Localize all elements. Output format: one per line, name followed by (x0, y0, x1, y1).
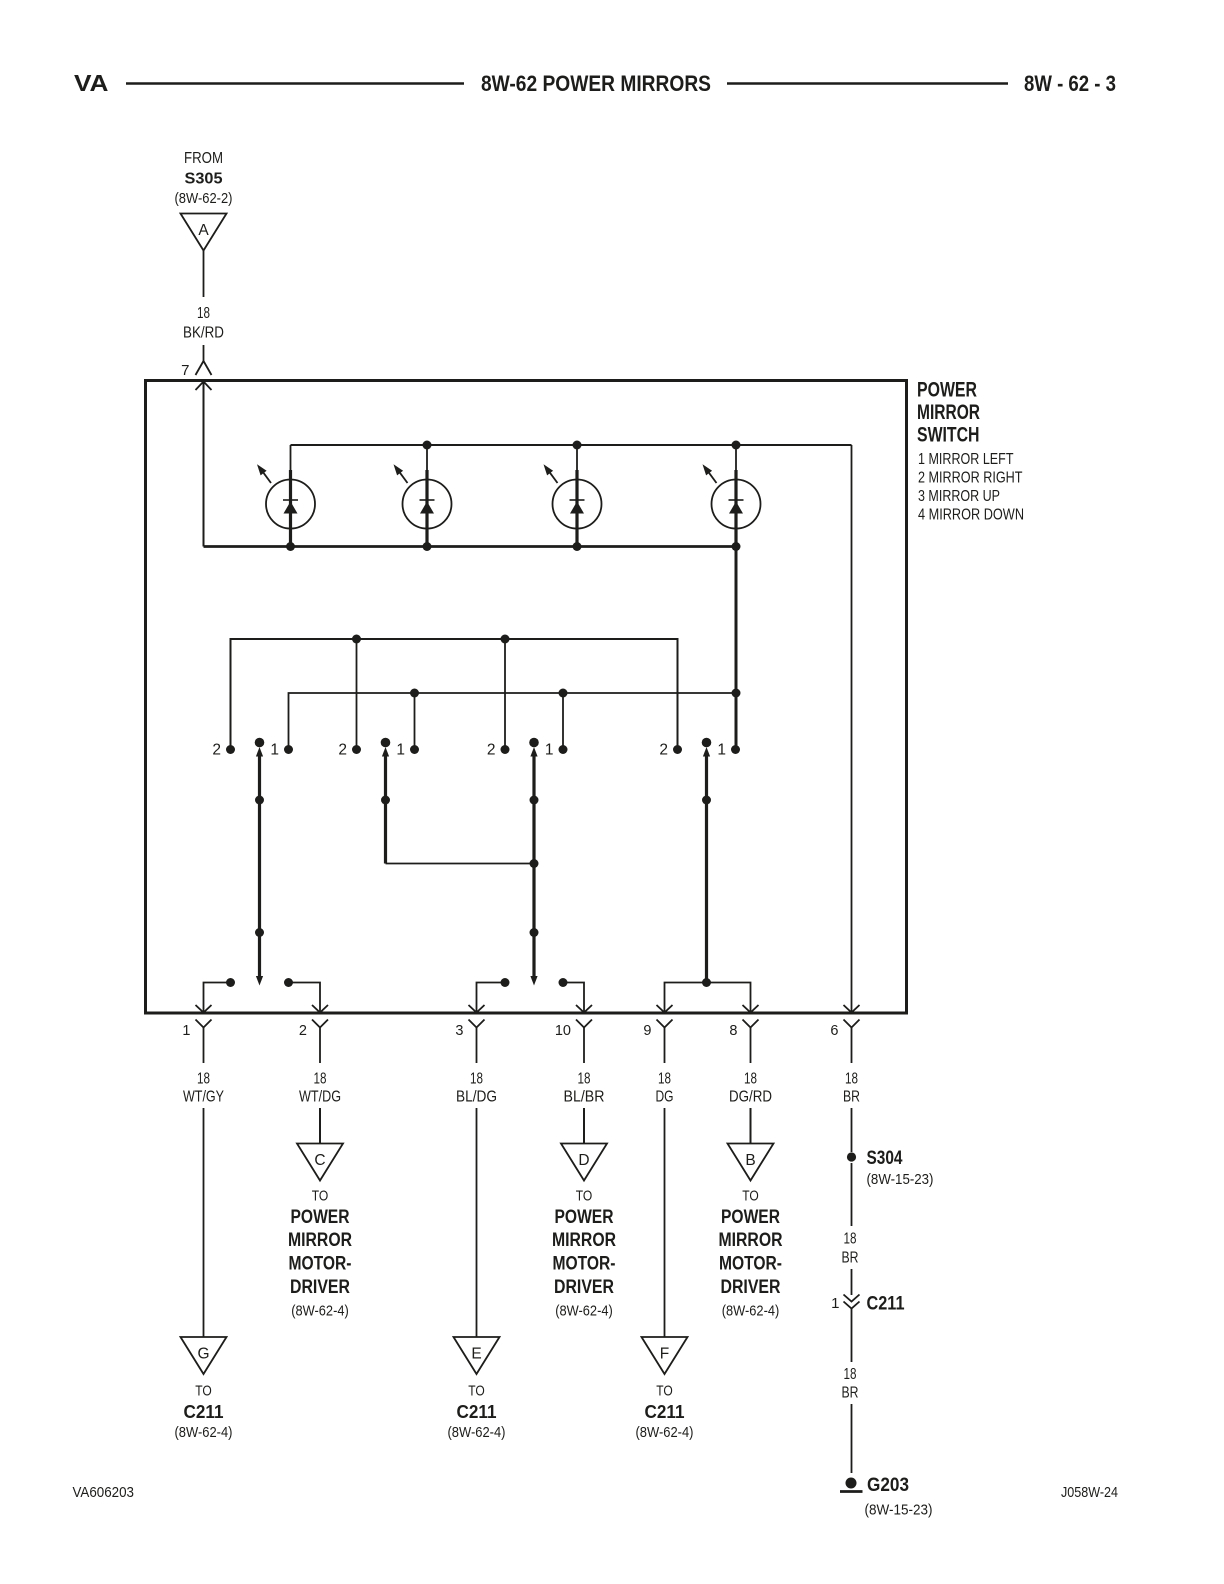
svg-text:8W - 62 - 3: 8W - 62 - 3 (1024, 71, 1116, 96)
pin number 9 (643, 1023, 651, 1039)
svg-text:7: 7 (181, 362, 189, 379)
svg-text:1: 1 (831, 1295, 839, 1312)
svg-text:DRIVER: DRIVER (290, 1277, 350, 1298)
off-page connector D (triangle) (561, 1144, 607, 1181)
power mirror switch body (box) (146, 381, 907, 1014)
svg-text:MIRROR: MIRROR (288, 1230, 352, 1251)
svg-text:TO: TO (468, 1384, 485, 1400)
splice S304 (847, 1152, 856, 1161)
destination label TO POWER MIRROR MOTOR-DRIVER (8W-62-4) (288, 1189, 352, 1320)
pin 10 exit arrowhead at box edge (576, 1005, 592, 1013)
svg-text:SWITCH: SWITCH (917, 424, 980, 447)
svg-text:2 MIRROR RIGHT: 2 MIRROR RIGHT (918, 470, 1023, 487)
wire to pin 6 (vertical) (851, 445, 853, 1013)
svg-text:DG: DG (656, 1089, 674, 1106)
svg-text:(8W-62-4): (8W-62-4) (636, 1424, 694, 1441)
wire from pin 8 (750, 1028, 752, 1064)
wire bottom bus of switch wafers (204, 545, 737, 548)
wire stub contact 2 of wafer 3 (504, 639, 506, 750)
wire to ground G203 (851, 1404, 853, 1473)
wire from pin 1 (203, 1028, 205, 1064)
pin number 1 at C211 (831, 1295, 839, 1312)
svg-text:(8W-62-2): (8W-62-2) (175, 190, 233, 207)
svg-text:BK/RD: BK/RD (183, 325, 224, 342)
wire to off-page connector C (319, 1108, 321, 1144)
svg-text:1: 1 (182, 1023, 190, 1039)
wire pin 7 feed down to switch common bus (203, 382, 205, 547)
svg-text:TO: TO (576, 1189, 593, 1205)
node S305 label FROM S305 (8W-62-2) (175, 150, 233, 207)
svg-text:F: F (660, 1346, 669, 1363)
svg-text:BL/BR: BL/BR (564, 1089, 605, 1106)
svg-text:2: 2 (659, 742, 668, 759)
wire C211 down (851, 1309, 853, 1363)
switch pole 2 fixed contacts and labels 2 / 1 (338, 738, 419, 759)
svg-text:3 MIRROR UP: 3 MIRROR UP (918, 488, 1000, 505)
svg-text:DG/RD: DG/RD (729, 1089, 772, 1106)
pole 1 output contacts to pins 1 and 2 (204, 978, 321, 1013)
pin number 1 (182, 1023, 190, 1039)
svg-text:8W-62 POWER MIRRORS: 8W-62 POWER MIRRORS (481, 71, 711, 96)
off-page connector B (triangle) (728, 1144, 774, 1181)
svg-text:8: 8 (729, 1023, 737, 1039)
wire top bus of switch wafers (291, 444, 852, 446)
destination label TO C211 (8W-62-4) (175, 1384, 233, 1442)
svg-text:(8W-62-4): (8W-62-4) (175, 1424, 233, 1441)
svg-text:J058W-24: J058W-24 (1061, 1484, 1118, 1501)
svg-text:S304: S304 (867, 1148, 903, 1169)
svg-text:18: 18 (845, 1071, 858, 1088)
svg-text:10: 10 (555, 1023, 571, 1039)
pin 10 connector socket below box (576, 1020, 592, 1028)
destination label TO POWER MIRROR MOTOR-DRIVER (8W-62-4) (719, 1189, 783, 1320)
svg-text:(8W-62-4): (8W-62-4) (291, 1303, 349, 1320)
off-page connector F (triangle) (642, 1337, 688, 1374)
junction dots on contacts-1 rail (410, 689, 741, 698)
svg-text:MOTOR-: MOTOR- (289, 1254, 352, 1275)
wire from pin 6 (851, 1028, 853, 1064)
wire label 18 BL/BR (564, 1071, 605, 1106)
pin 6 exit arrowhead at box edge (844, 1005, 860, 1013)
svg-text:A: A (198, 222, 209, 239)
pin 8 connector socket below box (743, 1020, 759, 1028)
pin 7 entry arrowhead inside box (196, 382, 212, 391)
svg-text:BR: BR (843, 1089, 860, 1106)
svg-text:2: 2 (487, 742, 496, 759)
footer drawing number J058W-24 (1061, 1484, 1118, 1501)
svg-text:MIRROR: MIRROR (552, 1230, 616, 1251)
off-page connector E (triangle) (454, 1337, 500, 1374)
svg-text:TO: TO (742, 1189, 759, 1205)
off-page connector G (triangle) (181, 1337, 227, 1374)
label G203 (8W-15-23) (865, 1475, 933, 1519)
pin 3 exit arrowhead at box edge (469, 1005, 485, 1013)
wire stub contact 1 of wafer 2 (414, 693, 416, 750)
pin 9 connector socket below box (657, 1020, 673, 1028)
in-line connector C211 pin 1 (double chevron) (844, 1295, 860, 1309)
junction dots on bottom bus (286, 542, 741, 551)
switch contact circle S2 (394, 445, 452, 547)
svg-text:1: 1 (545, 742, 554, 759)
wire to connector C211 (851, 1269, 853, 1295)
destination label TO POWER MIRROR MOTOR-DRIVER (8W-62-4) (552, 1189, 616, 1320)
wire to off-page connector B (750, 1108, 752, 1144)
in-line connector socket at pin 7 (196, 361, 212, 375)
svg-text:DRIVER: DRIVER (721, 1277, 781, 1298)
svg-text:18: 18 (197, 305, 210, 322)
svg-text:MIRROR: MIRROR (917, 401, 980, 424)
svg-text:(8W-15-23): (8W-15-23) (867, 1171, 934, 1188)
svg-text:MIRROR: MIRROR (719, 1230, 783, 1251)
header label VA (74, 70, 109, 96)
svg-text:BR: BR (842, 1385, 859, 1402)
switch pole 3 wiper (double arrow) (530, 747, 539, 986)
wire to off-page connector D (583, 1108, 585, 1144)
svg-text:VA606203: VA606203 (73, 1484, 135, 1501)
svg-text:18: 18 (578, 1071, 591, 1088)
switch pole 1 wiper (double arrow) (255, 747, 264, 986)
svg-text:2: 2 (212, 742, 221, 759)
header page number 8W - 62 - 3 (1024, 71, 1116, 96)
wire pin 6 to splice S304 (851, 1108, 853, 1152)
wire label 18 BL/DG (456, 1071, 497, 1106)
label C211 (867, 1294, 905, 1315)
junction dots on top bus (423, 441, 741, 450)
switch pole 1 fixed contacts and labels 2 / 1 (212, 738, 293, 759)
svg-text:POWER: POWER (555, 1207, 614, 1228)
switch contact circle S4 (703, 445, 761, 547)
svg-text:WT/DG: WT/DG (299, 1089, 341, 1106)
switch pole 2 wiper (arrow to pole 3) (381, 747, 534, 864)
svg-text:18: 18 (470, 1071, 483, 1088)
wire net of contacts 2 (upper rail) (231, 639, 678, 750)
svg-text:(8W-62-4): (8W-62-4) (555, 1303, 613, 1320)
svg-text:POWER: POWER (917, 379, 977, 402)
wire label 18 BR (842, 1366, 859, 1402)
svg-text:18: 18 (658, 1071, 671, 1088)
switch pole 4 fixed contacts and labels 2 / 1 (659, 738, 740, 759)
wire to off-page connector G (203, 1108, 205, 1337)
svg-text:C211: C211 (457, 1401, 497, 1422)
destination label TO C211 (8W-62-4) (448, 1384, 506, 1442)
pin 8 exit arrowhead at box edge (743, 1005, 759, 1013)
pole 3 output contacts to pins 3 and 10 (477, 978, 585, 1013)
wire label 18 BR (842, 1231, 859, 1267)
pin 1 exit arrowhead at box edge (196, 1005, 212, 1013)
svg-text:POWER: POWER (291, 1207, 350, 1228)
svg-text:(8W-62-4): (8W-62-4) (722, 1303, 780, 1320)
switch contact circle S3 (544, 445, 602, 547)
destination label TO C211 (8W-62-4) (636, 1384, 694, 1442)
svg-text:TO: TO (312, 1189, 329, 1205)
svg-text:6: 6 (830, 1023, 838, 1039)
header rule left (126, 82, 464, 85)
header title 8W-62 POWER MIRRORS (481, 71, 711, 96)
svg-text:S305: S305 (185, 171, 223, 188)
svg-text:MOTOR-: MOTOR- (553, 1254, 616, 1275)
svg-text:1: 1 (396, 742, 405, 759)
switch pole 3 fixed contacts and labels 2 / 1 (487, 738, 568, 759)
svg-text:E: E (471, 1346, 481, 1363)
ground G203 symbol (840, 1478, 863, 1492)
wire to off-page connector F (664, 1108, 666, 1337)
svg-text:DRIVER: DRIVER (554, 1277, 614, 1298)
svg-text:D: D (578, 1152, 589, 1169)
svg-text:C211: C211 (867, 1294, 905, 1315)
svg-text:4 MIRROR DOWN: 4 MIRROR DOWN (918, 507, 1024, 524)
svg-text:BL/DG: BL/DG (456, 1089, 497, 1106)
svg-text:18: 18 (844, 1366, 857, 1383)
pin number 10 (555, 1023, 571, 1039)
wire label 18 DG/RD (729, 1071, 772, 1106)
svg-text:1: 1 (270, 742, 279, 759)
svg-text:2: 2 (338, 742, 347, 759)
svg-text:18: 18 (314, 1071, 327, 1088)
pin 9 exit arrowhead at box edge (657, 1005, 673, 1013)
svg-text:C211: C211 (184, 1401, 224, 1422)
svg-text:BR: BR (842, 1250, 859, 1267)
label POWER MIRROR SWITCH (917, 379, 980, 447)
wire label 18 WT/DG (299, 1071, 341, 1106)
wire from connector A down (203, 251, 205, 298)
svg-text:1 MIRROR LEFT: 1 MIRROR LEFT (918, 451, 1014, 468)
pin 1 connector socket below box (196, 1020, 212, 1028)
pin 2 connector socket below box (312, 1020, 328, 1028)
svg-text:G203: G203 (867, 1475, 909, 1496)
pin number 6 (830, 1023, 838, 1039)
pin number 7 (181, 362, 189, 379)
wire into switch pin 7 (203, 345, 205, 361)
svg-text:FROM: FROM (184, 150, 223, 167)
svg-text:(8W-62-4): (8W-62-4) (448, 1424, 506, 1441)
svg-text:1: 1 (717, 742, 726, 759)
svg-text:TO: TO (195, 1384, 212, 1400)
wire from pin 3 (476, 1028, 478, 1064)
svg-text:WT/GY: WT/GY (183, 1089, 224, 1106)
off-page connector A (triangle) (181, 214, 227, 251)
off-page connector C (triangle) (297, 1144, 343, 1181)
svg-text:POWER: POWER (721, 1207, 780, 1228)
svg-text:9: 9 (643, 1023, 651, 1039)
svg-text:(8W-15-23): (8W-15-23) (865, 1502, 933, 1519)
svg-text:MOTOR-: MOTOR- (719, 1254, 782, 1275)
pole 4 output to pins 9 and 8 (665, 978, 751, 1013)
wire label 18 WT/GY (183, 1071, 224, 1106)
switch position legend (918, 451, 1024, 524)
label S304 (8W-15-23) (867, 1148, 934, 1188)
svg-text:3: 3 (455, 1023, 463, 1039)
svg-text:18: 18 (197, 1071, 210, 1088)
svg-text:C: C (314, 1152, 325, 1169)
wire S304 down (851, 1163, 853, 1226)
pin number 2 (299, 1023, 307, 1039)
switch pole 4 wiper (arrow) (702, 747, 711, 983)
wire from pin 9 (664, 1028, 666, 1064)
svg-text:VA: VA (74, 70, 109, 96)
wire label 18 BK/RD (183, 305, 224, 342)
svg-text:C211: C211 (645, 1401, 685, 1422)
wire from pin 2 (319, 1028, 321, 1064)
switch contact circle S1 (257, 445, 315, 547)
wire from pin 10 (583, 1028, 585, 1064)
svg-text:18: 18 (844, 1231, 857, 1248)
pin 3 connector socket below box (469, 1020, 485, 1028)
wire stub contact 1 of wafer 3 (562, 693, 564, 750)
pin number 8 (729, 1023, 737, 1039)
svg-text:2: 2 (299, 1023, 307, 1039)
wire label 18 BR (843, 1071, 860, 1106)
wire to off-page connector E (476, 1108, 478, 1337)
header rule right (727, 82, 1008, 85)
junction dots on contacts-2 rail (352, 635, 510, 644)
svg-text:G: G (197, 1346, 209, 1363)
svg-text:B: B (745, 1152, 755, 1169)
wire label 18 DG (656, 1071, 674, 1106)
pin 2 exit arrowhead at box edge (312, 1005, 328, 1013)
wire wafer 4 common from bottom bus to contact 1 (735, 547, 738, 750)
pin 6 connector socket below box (844, 1020, 860, 1028)
svg-text:TO: TO (656, 1384, 673, 1400)
pin number 3 (455, 1023, 463, 1039)
footer document number VA606203 (73, 1484, 135, 1501)
svg-text:18: 18 (744, 1071, 757, 1088)
wire stub contact 2 of wafer 2 (356, 639, 358, 750)
wire net of contacts 1 (lower rail) (289, 693, 737, 750)
